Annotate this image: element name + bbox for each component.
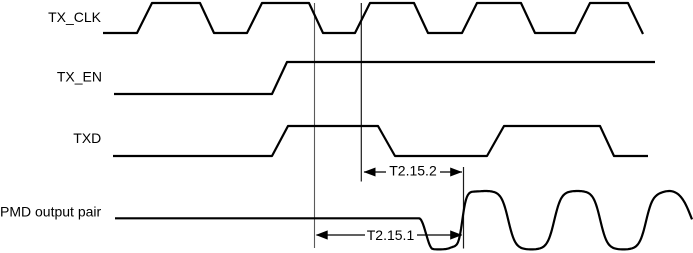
dimension arrow T2.15.2 (between line B and line C) (364, 163, 463, 179)
svg-text:PMD output pair: PMD output pair (0, 204, 101, 220)
wire PMD output pair waveform (flat then sinusoid) (115, 191, 692, 249)
wire TX_EN waveform (114, 62, 655, 94)
wire TXD waveform (113, 126, 648, 156)
svg-text:TXD: TXD (73, 130, 101, 146)
svg-text:T2.15.1: T2.15.1 (367, 227, 415, 243)
dimension arrow T2.15.1 (between line A and line C) (316, 227, 463, 243)
svg-text:T2.15.2: T2.15.2 (389, 163, 437, 179)
node reference line A at x=314.5 (TX_EN sample edge) (314, 3, 316, 248)
wire TX_CLK clock waveform (103, 3, 643, 34)
node reference line B at x=361.3 (TX_CLK rising edge) (360, 3, 362, 182)
svg-text:TX_EN: TX_EN (57, 69, 102, 85)
svg-text:TX_CLK: TX_CLK (48, 9, 102, 25)
node reference line C at x=463.5 (PMD output transition) (463, 167, 465, 249)
